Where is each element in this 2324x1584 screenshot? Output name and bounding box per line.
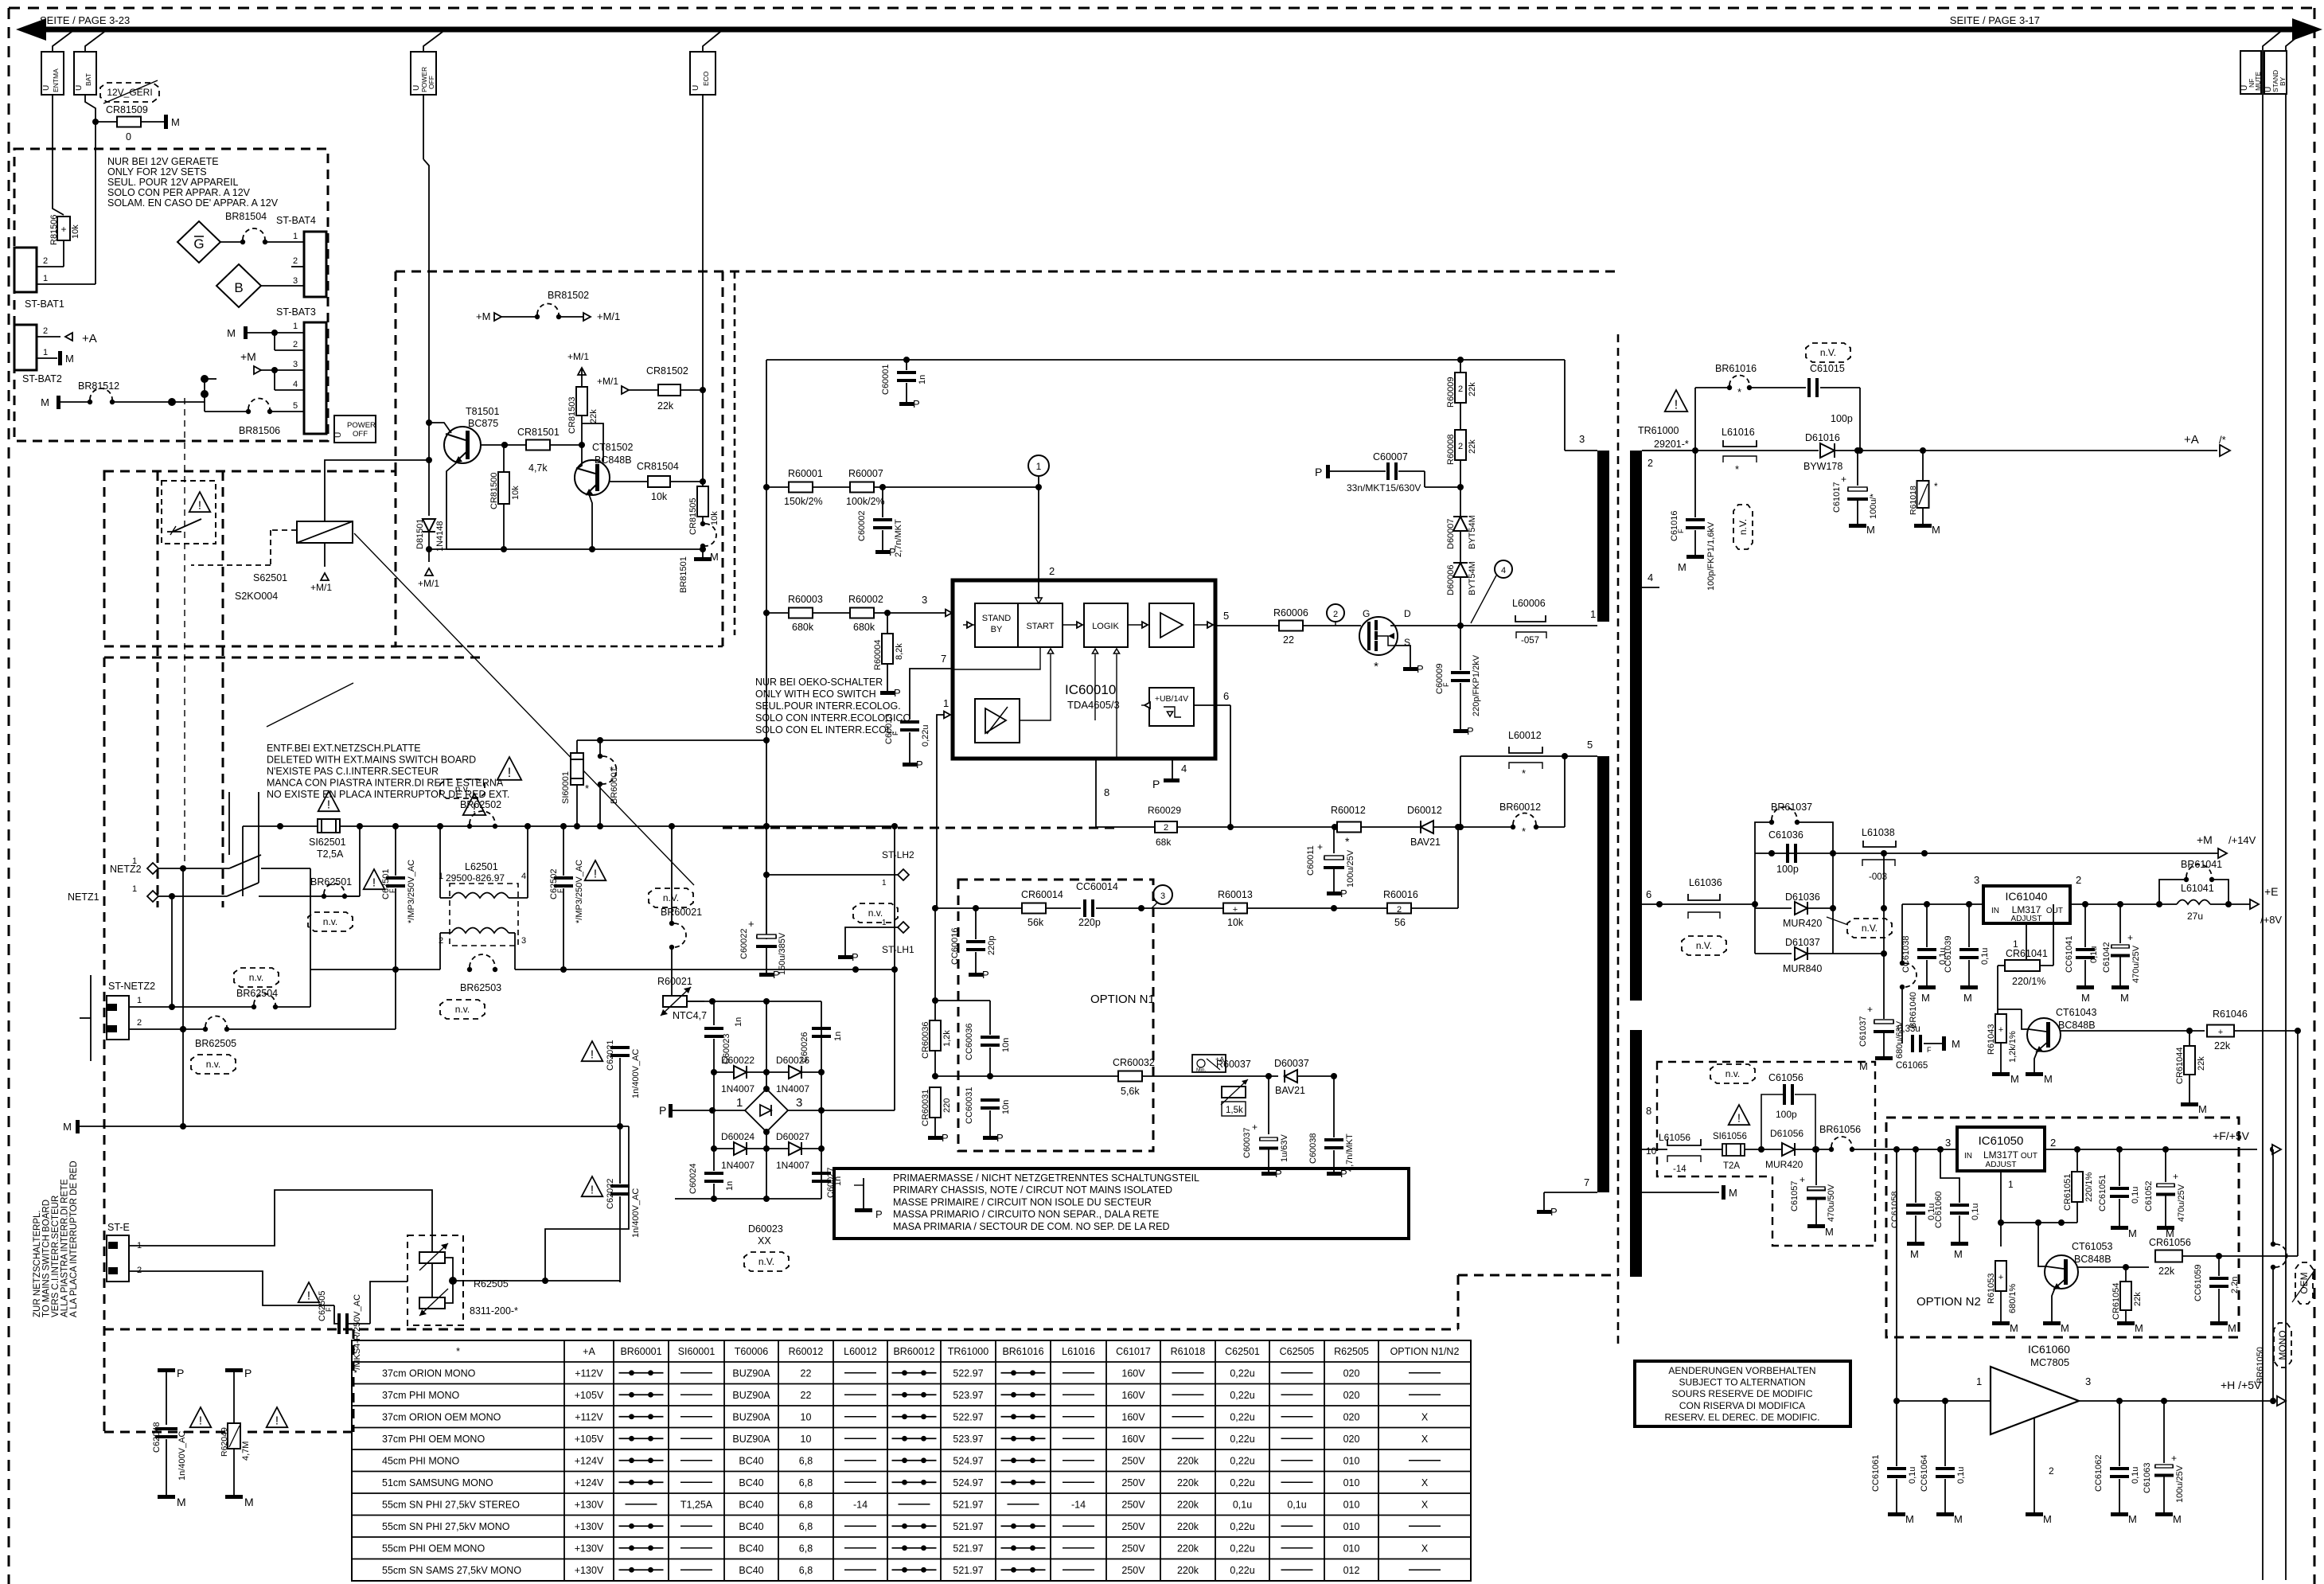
svg-text:-14: -14	[1673, 1165, 1686, 1174]
svg-text:M: M	[171, 116, 180, 128]
ground P C60037	[1261, 1172, 1276, 1176]
svg-text:START: START	[1026, 622, 1054, 631]
ground P source T60006	[1403, 667, 1417, 671]
connector label U POWER OFF	[411, 52, 436, 95]
capacitor C62502	[563, 826, 564, 876]
resistor R62049	[225, 1368, 243, 1372]
svg-text:SOLAM. EN CASO DE' APPAR. A 12: SOLAM. EN CASO DE' APPAR. A 12V	[107, 197, 279, 209]
wire bridge out right	[821, 1110, 895, 1111]
inductor L61041	[2156, 901, 2162, 907]
svg-text:*: *	[1345, 835, 1350, 848]
capacitor C60038	[1333, 1076, 1335, 1137]
svg-text:CR60036: CR60036	[921, 1022, 930, 1059]
svg-text:1u/63V: 1u/63V	[1280, 1133, 1289, 1162]
svg-text:n.V.: n.V.	[1696, 940, 1712, 951]
resistor R60002	[813, 612, 851, 614]
svg-text:6,8: 6,8	[799, 1499, 813, 1510]
page border left	[8, 8, 10, 1584]
svg-text:1: 1	[1590, 608, 1596, 620]
svg-text:220/1%: 220/1%	[2084, 1172, 2094, 1202]
svg-text:2: 2	[1458, 442, 1463, 451]
svg-text:+M/1: +M/1	[567, 351, 589, 362]
wire ENTMA vertical	[53, 95, 64, 215]
dashed edge y=341 top of primary block	[396, 271, 1618, 273]
svg-text:/*: /*	[2219, 434, 2226, 446]
dashed box: 12V battery section	[14, 149, 328, 441]
jumper BR61040	[1900, 961, 1917, 989]
svg-text:X: X	[1421, 1477, 1429, 1488]
svg-text:R60029: R60029	[1148, 805, 1181, 816]
svg-text:T60006: T60006	[735, 1346, 768, 1357]
svg-text:6: 6	[1223, 690, 1229, 702]
node stub	[201, 375, 209, 383]
svg-text:*: *	[1522, 825, 1526, 837]
svg-text:C60026: C60026	[800, 1032, 809, 1063]
transformer TR61000	[1665, 390, 1688, 412]
svg-text:10k: 10k	[71, 224, 80, 239]
svg-text:P: P	[1550, 1206, 1558, 1218]
svg-text:/+14V: /+14V	[2228, 834, 2256, 846]
diode D60022	[712, 1071, 733, 1073]
wire POWER OFF vertical	[423, 95, 424, 159]
svg-text:CR61044: CR61044	[2175, 1048, 2185, 1084]
svg-text:X: X	[1421, 1411, 1429, 1422]
svg-text:S2KO004: S2KO004	[235, 591, 278, 602]
svg-text:R60012: R60012	[1331, 805, 1366, 816]
svg-text:n.v.: n.v.	[206, 1059, 220, 1070]
svg-text:R61053: R61053	[1987, 1273, 1996, 1304]
svg-text:1: 1	[132, 856, 137, 866]
svg-text:BR60021: BR60021	[661, 907, 702, 918]
svg-text:1: 1	[43, 274, 48, 283]
svg-text:C62505: C62505	[318, 1290, 327, 1321]
svg-text:BR81502: BR81502	[548, 290, 589, 301]
node C60007	[1457, 484, 1464, 490]
svg-text:D60023: D60023	[748, 1223, 783, 1235]
svg-text:22k: 22k	[2158, 1266, 2175, 1277]
svg-text:CR81500: CR81500	[489, 473, 499, 509]
svg-text:R60001: R60001	[788, 468, 823, 479]
node 2 (circled)	[1327, 604, 1344, 622]
wire R62505 out	[453, 1280, 620, 1282]
svg-text:OUT: OUT	[2046, 907, 2063, 915]
svg-text:*: *	[456, 1346, 460, 1357]
svg-text:1N4007: 1N4007	[721, 1083, 755, 1094]
resistor R61053	[2000, 1223, 2002, 1247]
resistor R61046	[2207, 1025, 2234, 1037]
svg-text:MUTE: MUTE	[2254, 72, 2262, 91]
svg-text:NETZ1: NETZ1	[68, 891, 99, 903]
svg-text:37cm ORION OEM MONO: 37cm ORION OEM MONO	[382, 1411, 501, 1422]
OPTION N1 dashed box	[958, 880, 1153, 1151]
wire pin1 ADJ	[2000, 1171, 2002, 1223]
resistor R60003	[766, 612, 790, 614]
svg-text:ECO: ECO	[702, 71, 710, 86]
bus arrowhead left	[16, 18, 46, 41]
svg-text:1: 1	[132, 884, 137, 894]
note box PRIMAERMASSE	[834, 1168, 1409, 1239]
svg-text:2: 2	[1647, 458, 1653, 469]
capacitor CC61041	[2084, 904, 2086, 947]
svg-text:M: M	[2173, 1513, 2182, 1525]
svg-text:ST-E: ST-E	[107, 1222, 130, 1233]
svg-text:CR61054: CR61054	[2111, 1283, 2121, 1320]
svg-text:+: +	[1841, 474, 1846, 485]
diode D60007	[1453, 517, 1468, 531]
dashed corridor vertical x=280	[222, 471, 224, 907]
svg-text:D61037: D61037	[1785, 937, 1820, 948]
capacitor C61015	[1806, 343, 1850, 362]
svg-text:M: M	[1963, 992, 1972, 1004]
svg-text:TR61000: TR61000	[1638, 425, 1679, 436]
ground P pin7	[1537, 1210, 1551, 1214]
svg-text:P: P	[1340, 888, 1347, 899]
svg-text:ST-LH2: ST-LH2	[882, 849, 914, 860]
connector label U ECO	[690, 52, 716, 95]
svg-text:521.97: 521.97	[953, 1499, 983, 1510]
svg-text:R60006: R60006	[1273, 607, 1308, 618]
svg-text:R81506: R81506	[49, 214, 59, 245]
svg-text:+M/1: +M/1	[418, 578, 439, 589]
svg-text:C61015: C61015	[1810, 363, 1845, 374]
svg-text:R60004: R60004	[873, 639, 883, 670]
svg-text:MUR420: MUR420	[1765, 1159, 1803, 1170]
svg-text:C62022: C62022	[606, 1178, 615, 1209]
resistor CR60032	[1118, 1071, 1142, 1082]
main AC rail top y=1038	[243, 825, 318, 827]
svg-text:BR61037: BR61037	[1771, 802, 1812, 813]
svg-text:BR81504: BR81504	[225, 211, 267, 222]
svg-text:220k: 220k	[1177, 1521, 1199, 1532]
svg-text:524.97: 524.97	[953, 1477, 983, 1488]
svg-text:680k: 680k	[853, 622, 875, 633]
svg-text:D60022: D60022	[721, 1055, 755, 1066]
svg-text:P: P	[942, 1132, 949, 1144]
wire y=1352	[935, 1075, 1119, 1077]
svg-text:M: M	[65, 353, 74, 365]
svg-text:4,7M: 4,7M	[241, 1442, 251, 1461]
svg-text:M: M	[2128, 1227, 2137, 1239]
svg-text:CR61051: CR61051	[2063, 1174, 2072, 1211]
jumper BR81506	[246, 399, 272, 415]
secondary winding bar (pins 6-10)	[1630, 1030, 1642, 1277]
svg-text:BAT: BAT	[84, 73, 92, 86]
svg-text:SI60001: SI60001	[678, 1346, 716, 1357]
svg-text:M: M	[1729, 1187, 1737, 1199]
dashed edge y=1040 OEKO bottom	[723, 827, 1114, 829]
svg-text:CR81505: CR81505	[688, 498, 698, 535]
svg-text:+M/1: +M/1	[310, 582, 332, 593]
svg-text:CC61062: CC61062	[2094, 1455, 2104, 1492]
svg-text:Min.: Min.	[1196, 1067, 1206, 1073]
svg-text:C61037: C61037	[1858, 1016, 1868, 1047]
capacitor C60011	[1334, 826, 1335, 828]
svg-text:6: 6	[1646, 888, 1651, 900]
wire main vertical x=963	[766, 360, 767, 939]
svg-text:n.V.: n.V.	[1862, 923, 1878, 934]
svg-text:F: F	[556, 888, 564, 893]
svg-text:10: 10	[801, 1411, 812, 1422]
svg-text:n.V.: n.V.	[1737, 519, 1749, 535]
svg-text:1: 1	[293, 232, 298, 241]
svg-text:1N4007: 1N4007	[721, 1160, 755, 1171]
svg-text:BR61016: BR61016	[1715, 363, 1757, 374]
ground P C60009	[1453, 729, 1468, 733]
svg-text:*/MP3/250V_AC: */MP3/250V_AC	[575, 860, 584, 923]
svg-text:100p: 100p	[1776, 1109, 1797, 1120]
node BAT/CR81509	[92, 119, 99, 125]
svg-text:010: 010	[1343, 1455, 1360, 1466]
capacitor C60022	[766, 826, 767, 934]
resistor R60006	[1279, 621, 1303, 631]
svg-text:G: G	[193, 236, 204, 252]
svg-text:P: P	[852, 951, 859, 963]
svg-text:OFF: OFF	[353, 430, 368, 439]
svg-text:BUZ90A: BUZ90A	[732, 1390, 770, 1401]
svg-text:+A: +A	[2184, 433, 2199, 447]
resistor R60001	[766, 486, 790, 488]
svg-text:LM317: LM317	[2012, 904, 2041, 915]
svg-text:VERS C.I.INTERR.SECTEUR: VERS C.I.INTERR.SECTEUR	[51, 1196, 60, 1317]
svg-text:0,1u: 0,1u	[1287, 1499, 1306, 1510]
svg-text:+: +	[748, 918, 755, 930]
svg-text:SI61056: SI61056	[1713, 1132, 1747, 1141]
svg-text:AENDERUNGEN VORBEHALTEN: AENDERUNGEN VORBEHALTEN	[1668, 1365, 1815, 1376]
svg-text:OPTION N1: OPTION N1	[1090, 993, 1155, 1006]
switch NETZ1	[227, 883, 259, 896]
svg-text:+130V: +130V	[575, 1543, 604, 1554]
svg-text:C60013: C60013	[884, 713, 894, 744]
svg-text:M: M	[1921, 992, 1930, 1004]
svg-text:CR61041: CR61041	[2006, 948, 2048, 959]
svg-text:22k: 22k	[1468, 439, 1477, 454]
svg-text:220k: 220k	[1177, 1543, 1199, 1554]
svg-text:R60021: R60021	[657, 976, 692, 987]
svg-text:0: 0	[126, 131, 131, 142]
resistor CR61044	[2189, 1031, 2190, 1046]
svg-text:1n: 1n	[725, 1181, 735, 1191]
capacitor C62022	[610, 1184, 630, 1196]
svg-text:ENTF.BEI EXT.NETZSCH.PLATTE: ENTF.BEI EXT.NETZSCH.PLATTE	[267, 743, 421, 754]
svg-text:P: P	[659, 1104, 666, 1117]
resistor CR81505	[702, 390, 704, 487]
fuse SI62501	[318, 819, 340, 833]
capacitor C61057	[1815, 1149, 1817, 1186]
svg-text:0,22u: 0,22u	[1230, 1543, 1254, 1554]
resistor CR81500	[498, 472, 509, 504]
resistor R60012	[1337, 822, 1361, 833]
svg-text:+: +	[1233, 905, 1238, 915]
arrow +E /+8V	[2250, 899, 2259, 909]
svg-text:L61041: L61041	[2181, 883, 2214, 894]
svg-text:CR60031: CR60031	[921, 1090, 930, 1126]
svg-text:IC60010: IC60010	[1065, 682, 1116, 697]
svg-text:33n/MKT15/630V: 33n/MKT15/630V	[1347, 482, 1421, 494]
svg-text:P: P	[1315, 466, 1322, 478]
capacitor C61016	[1694, 451, 1696, 517]
coil L62501 top	[451, 893, 509, 899]
ground P C60001	[899, 402, 914, 406]
svg-text:1: 1	[43, 348, 48, 357]
svg-text:160V: 160V	[1121, 1411, 1145, 1422]
dashed box: relay band	[104, 471, 396, 646]
svg-text:X: X	[1421, 1543, 1429, 1554]
svg-text:470u/50V: 470u/50V	[1827, 1184, 1836, 1222]
svg-text:522.97: 522.97	[953, 1411, 983, 1422]
svg-text:+M: +M	[240, 350, 256, 363]
svg-text:SI62501: SI62501	[309, 837, 346, 848]
svg-text:BR60001: BR60001	[620, 1346, 661, 1357]
svg-text:R60012: R60012	[789, 1346, 824, 1357]
svg-text:MC7805: MC7805	[2030, 1356, 2069, 1368]
wire B to ST-BAT4 pin3	[261, 285, 304, 287]
resistor R60013	[1152, 907, 1224, 909]
svg-text:!: !	[275, 1414, 279, 1428]
wire collector CT61053	[2078, 1266, 2149, 1268]
svg-text:45cm PHI MONO: 45cm PHI MONO	[382, 1455, 460, 1466]
svg-text:CC61059: CC61059	[2193, 1265, 2203, 1301]
svg-text:3: 3	[1945, 1137, 1951, 1149]
svg-text:!: !	[591, 1048, 594, 1062]
svg-text:+: +	[2173, 1171, 2178, 1182]
wire ST-BAT1 pin2	[37, 266, 64, 267]
svg-text:ST-BAT2: ST-BAT2	[22, 373, 62, 384]
svg-text:P: P	[875, 1208, 883, 1220]
svg-text:M: M	[1859, 1060, 1868, 1072]
svg-text:ST-BAT4: ST-BAT4	[276, 215, 316, 226]
dashed edge y=826	[104, 657, 482, 659]
wire switch contacts from relay band	[228, 792, 230, 855]
svg-text:*/MP3/250V_AC: */MP3/250V_AC	[407, 860, 416, 923]
capacitor CC61064	[1944, 1401, 1946, 1466]
transformer core dashed line	[1617, 334, 1620, 1345]
svg-text:M: M	[177, 1496, 186, 1508]
svg-text:2: 2	[1164, 823, 1168, 833]
dashed corridor vertical x=198	[157, 471, 159, 907]
relay S62501	[297, 521, 353, 543]
svg-text:P: P	[916, 759, 923, 771]
svg-text:BR61050: BR61050	[2256, 1347, 2265, 1383]
connector label U NF MUTE	[2240, 51, 2261, 94]
wire collector node to +14V rail	[2061, 1009, 2221, 1010]
svg-text:+UB/14V: +UB/14V	[1155, 694, 1188, 704]
svg-text:0,1u: 0,1u	[1971, 1204, 1980, 1220]
jumper BR62505	[203, 1016, 229, 1032]
svg-text:0,22u: 0,22u	[1230, 1367, 1254, 1379]
svg-text:P: P	[982, 969, 989, 981]
svg-text:22k: 22k	[589, 409, 599, 423]
svg-text:1: 1	[293, 322, 298, 331]
svg-text:2: 2	[43, 326, 48, 336]
svg-text:R60007: R60007	[848, 468, 883, 479]
jumper BR62502	[467, 811, 497, 829]
svg-text:M: M	[1952, 1038, 1960, 1050]
snubber column x=1835	[1460, 360, 1461, 373]
svg-text:NUR BEI 12V GERAETE: NUR BEI 12V GERAETE	[107, 156, 219, 167]
svg-text:ENTMA: ENTMA	[52, 68, 60, 92]
svg-text:C61017: C61017	[1832, 482, 1842, 513]
svg-text:MUR840: MUR840	[1783, 963, 1822, 974]
capacitor C61063	[2163, 1401, 2165, 1463]
svg-text:220p: 220p	[1078, 917, 1101, 928]
svg-text:BYW178: BYW178	[1803, 461, 1842, 472]
dashed edge x=444 vertical	[353, 1329, 355, 1432]
svg-text:0,1u: 0,1u	[2089, 946, 2099, 963]
svg-text:CR81502: CR81502	[646, 365, 688, 376]
resistor CR60036	[930, 1020, 941, 1051]
svg-text:BC40: BC40	[739, 1499, 763, 1510]
svg-text:M: M	[1954, 1248, 1963, 1260]
svg-text:+M: +M	[476, 310, 490, 322]
AC rail bottom y=1218	[310, 969, 440, 970]
ground P C60002	[875, 550, 890, 554]
svg-text:3: 3	[1160, 891, 1165, 901]
warning triangle (switch box)	[189, 492, 211, 513]
svg-text:*: *	[1737, 386, 1741, 398]
svg-text:220k: 220k	[1177, 1477, 1199, 1488]
svg-text:MASSA PRIMARIO / CIRCUITO NON: MASSA PRIMARIO / CIRCUITO NON SEPAR., DA…	[893, 1209, 1159, 1220]
svg-text:29201-*: 29201-*	[1654, 439, 1689, 450]
capacitor C61036	[1786, 844, 1797, 863]
capacitor C60023	[713, 1001, 715, 1025]
svg-text:R61018: R61018	[1909, 486, 1918, 515]
block START	[1018, 603, 1063, 647]
svg-text:ST-BAT3: ST-BAT3	[276, 306, 316, 318]
transistor CT81502	[575, 460, 610, 495]
svg-text:SOLO CON EL INTERR.ECOL.: SOLO CON EL INTERR.ECOL.	[755, 724, 895, 735]
photo resistor box R60037	[1192, 1055, 1226, 1072]
svg-text:BC848B: BC848B	[2058, 1020, 2096, 1031]
capacitor C60026	[812, 1027, 831, 1038]
svg-text:BUZ90A: BUZ90A	[732, 1367, 770, 1379]
capacitor CC60031	[989, 1076, 991, 1098]
svg-text:!: !	[508, 765, 512, 780]
wire NETZ2 to bottom rail	[310, 868, 311, 970]
svg-text:CC60031: CC60031	[965, 1087, 974, 1124]
OPTION N2 dashed box	[1886, 1118, 2239, 1337]
svg-text:MONO: MONO	[2277, 1330, 2288, 1360]
svg-text:020: 020	[1343, 1411, 1360, 1422]
svg-text:M: M	[710, 551, 719, 563]
svg-text:0,22u: 0,22u	[1230, 1455, 1254, 1466]
svg-text:+: +	[60, 224, 66, 235]
svg-text:5,6k: 5,6k	[1121, 1086, 1140, 1097]
svg-text:T2A: T2A	[1723, 1161, 1740, 1171]
node CR81500 top	[501, 442, 508, 448]
svg-text:1n: 1n	[833, 1032, 843, 1041]
svg-text:C62502: C62502	[549, 868, 559, 899]
svg-text:C60022: C60022	[739, 928, 749, 959]
fuse SI61056	[1722, 1144, 1745, 1156]
svg-text:0,22u: 0,22u	[1230, 1521, 1254, 1532]
svg-text:BC875: BC875	[468, 418, 498, 429]
svg-text:55cm SN PHI 27,5kV MONO: 55cm SN PHI 27,5kV MONO	[382, 1521, 510, 1532]
svg-text:3: 3	[1974, 874, 1979, 886]
svg-text:M: M	[2043, 1513, 2052, 1525]
svg-text:ADJUST: ADJUST	[1986, 1161, 2017, 1169]
resistor CR81509	[96, 121, 118, 123]
svg-text:M: M	[1825, 1226, 1834, 1238]
wire emitter rail y=690	[429, 548, 703, 550]
diode D61016	[1820, 443, 1835, 458]
svg-text:C60038: C60038	[1308, 1133, 1318, 1164]
diamond G	[177, 221, 220, 263]
svg-text:37cm ORION MONO: 37cm ORION MONO	[382, 1367, 476, 1379]
wire feedback vertical	[2297, 1031, 2299, 1256]
svg-text:IC61060: IC61060	[2028, 1343, 2070, 1356]
svg-text:M: M	[2061, 1322, 2069, 1334]
svg-text:CC61058: CC61058	[1890, 1192, 1900, 1228]
